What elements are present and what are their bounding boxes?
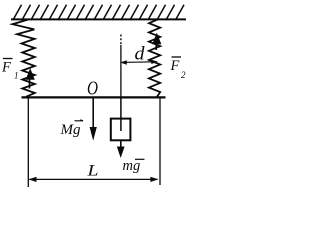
svg-text:1: 1 <box>14 71 19 81</box>
dimension arrow d (double headed) <box>122 61 157 64</box>
spring 1 (left) <box>13 20 35 97</box>
svg-text:L: L <box>86 163 98 180</box>
svg-text:2: 2 <box>181 70 186 80</box>
svg-text:F: F <box>170 58 180 74</box>
beam (rod) <box>22 96 166 98</box>
ceiling hatching <box>13 5 184 20</box>
svg-text:d: d <box>135 45 146 65</box>
dimension arrow L (double headed) <box>30 178 158 180</box>
mass m block <box>111 119 131 141</box>
string to mass m <box>120 98 122 131</box>
force arrow F2 (up, on spring 2) <box>153 35 160 50</box>
force arrow F1 (up, on spring 1) <box>27 70 34 88</box>
right extension line <box>159 98 161 185</box>
weight arrow Mg <box>92 98 94 131</box>
svg-text:mg: mg <box>123 158 141 174</box>
ceiling line <box>11 18 186 20</box>
left extension line <box>27 98 29 187</box>
spring 2 (right) <box>149 20 160 97</box>
svg-text:Mg: Mg <box>60 122 81 138</box>
dashed reference line above beam <box>120 35 122 46</box>
svg-text:O: O <box>87 78 98 100</box>
weight arrow mg <box>120 141 122 150</box>
svg-text:F: F <box>1 60 11 76</box>
